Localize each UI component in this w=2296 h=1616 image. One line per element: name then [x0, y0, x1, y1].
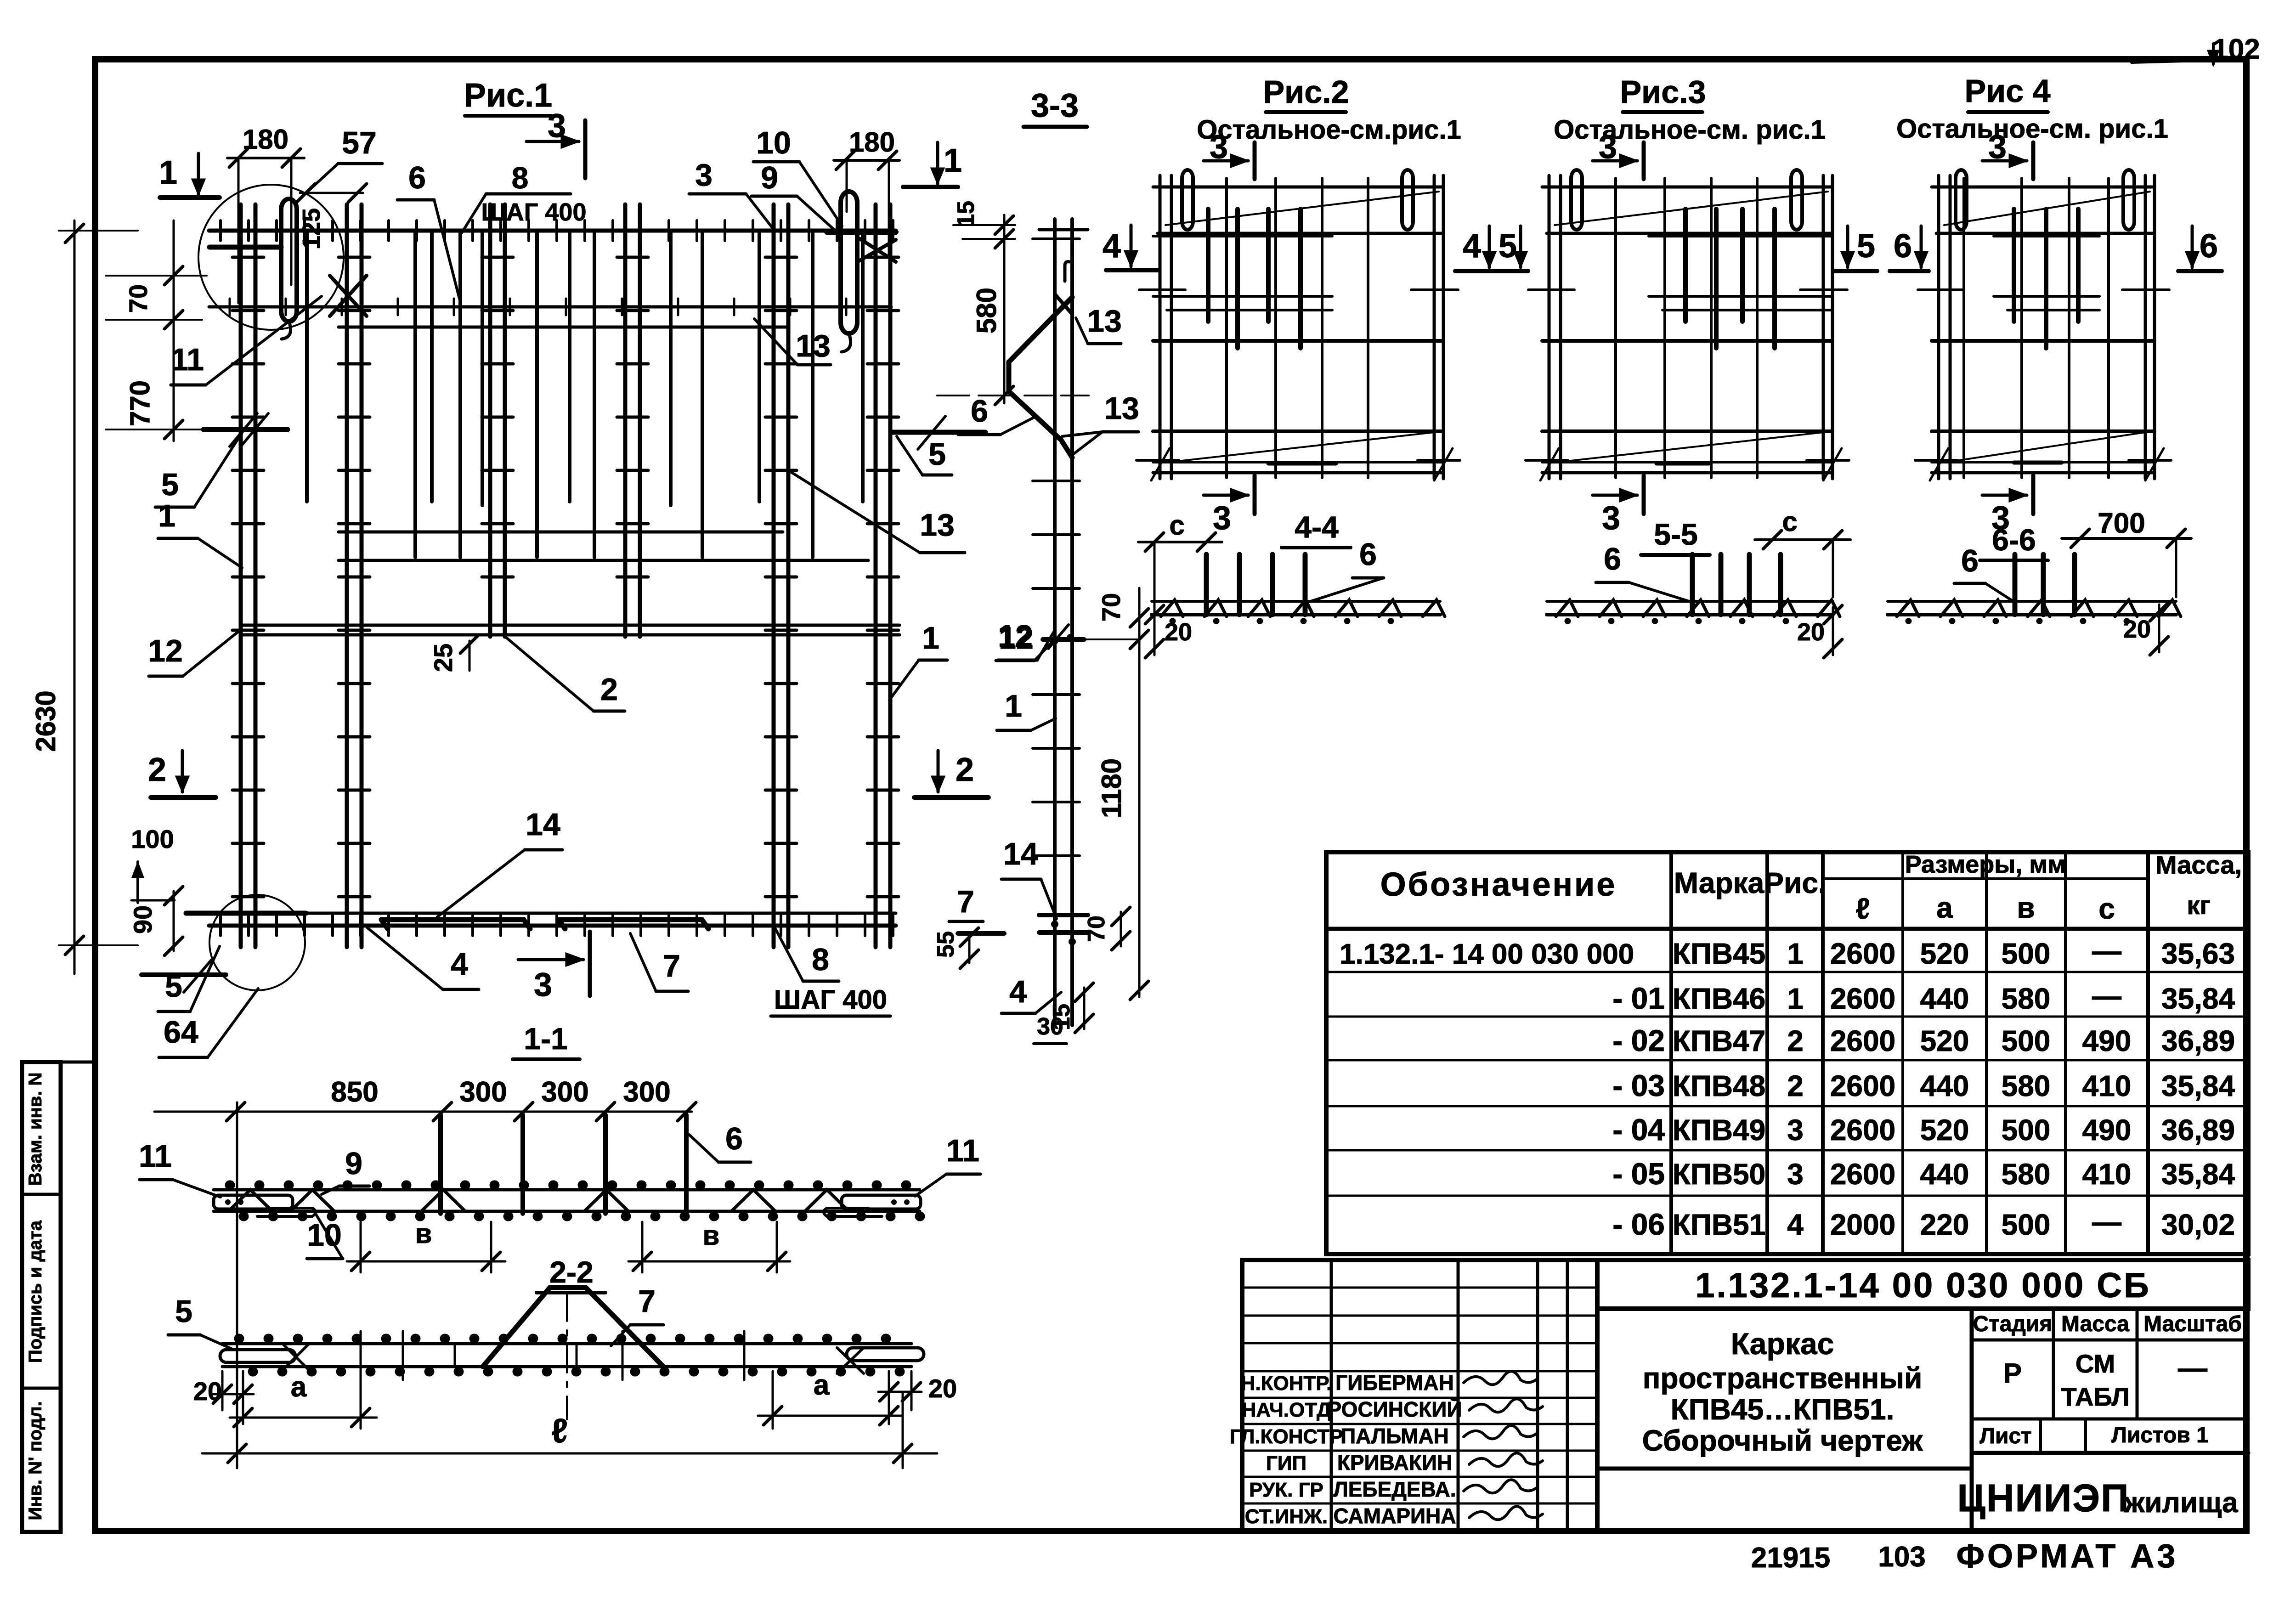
fig1 partial ladder D [623, 204, 628, 637]
svg-text:Рис.1: Рис.1 [464, 77, 552, 114]
fig1 horizontal bar 13 upper [339, 326, 786, 329]
section 2-2 right anchor oval [847, 1348, 924, 1361]
svg-text:2600: 2600 [1830, 937, 1895, 970]
svg-text:180: 180 [243, 124, 288, 155]
svg-text:700: 700 [2098, 508, 2145, 539]
title block list row [2039, 1419, 2042, 1453]
svg-text:10: 10 [756, 125, 791, 160]
svg-text:5: 5 [1857, 228, 1875, 265]
fig2 section marker 4 right [1488, 226, 1491, 267]
fig4 section marker 6 left [1920, 226, 1923, 267]
svg-text:Обозначение: Обозначение [1380, 866, 1617, 903]
svg-text:70: 70 [124, 284, 153, 313]
spec table header bottom line [1326, 927, 2248, 931]
svg-text:ТАБЛ: ТАБЛ [2061, 1382, 2129, 1411]
title block signature columns [1330, 1260, 1333, 1532]
svg-text:440: 440 [1920, 1069, 1969, 1102]
section 6-6 tie dots [1908, 618, 2127, 624]
fig1 bottom chord pair [209, 912, 896, 915]
svg-text:Рис.3: Рис.3 [1620, 74, 1706, 110]
section 2-2 left anchor oval 5 [220, 1350, 295, 1362]
fig4 bottom diagonal bar [1944, 432, 2145, 463]
svg-text:5: 5 [165, 969, 182, 1004]
section 2-2 centerline [566, 1294, 568, 1419]
svg-text:НАЧ.ОТД: НАЧ.ОТД [1242, 1399, 1331, 1421]
svg-text:КПВ48: КПВ48 [1673, 1069, 1765, 1102]
fig4 bottom ticks [1915, 459, 1957, 462]
svg-text:Н.КОНТР.: Н.КОНТР. [1241, 1372, 1332, 1395]
svg-text:500: 500 [2002, 937, 2051, 970]
svg-text:2: 2 [956, 751, 974, 788]
svg-text:100: 100 [131, 825, 174, 853]
section 1-1 left extension line [236, 1102, 238, 1468]
svg-text:ЦНИИЭП: ЦНИИЭП [1957, 1476, 2130, 1520]
svg-text:КПВ47: КПВ47 [1673, 1024, 1765, 1057]
section 5-5 main bar pair [1547, 600, 1833, 603]
section 4-4 wave ties [1161, 600, 1445, 616]
section 3-3 top tick [1039, 228, 1088, 232]
fig2 bottom chord dash [1268, 462, 1336, 466]
svg-text:кг: кг [2187, 891, 2210, 920]
section 2-2 bar dots [239, 1339, 900, 1372]
fig1 ladder column F [874, 204, 878, 947]
section 3-3 marker 4 top [1130, 225, 1133, 266]
svg-text:770: 770 [124, 380, 155, 426]
svg-text:Листов 1: Листов 1 [2111, 1423, 2209, 1447]
fig1 horizontal bar 13 lower [339, 531, 783, 534]
svg-text:Лист: Лист [1979, 1424, 2031, 1448]
svg-text:6: 6 [971, 394, 988, 429]
fig3 bottom diagonal bar [1555, 432, 1823, 463]
svg-text:1.132.1- 14 00 030 000: 1.132.1- 14 00 030 000 [1340, 938, 1634, 970]
svg-text:13: 13 [1104, 391, 1139, 426]
svg-text:- 04: - 04 [1612, 1113, 1665, 1147]
svg-text:13: 13 [1087, 304, 1122, 339]
svg-text:20: 20 [2123, 616, 2151, 643]
svg-text:в: в [415, 1218, 432, 1249]
svg-text:КРИВАКИН: КРИВАКИН [1337, 1451, 1452, 1475]
svg-text:ГИБЕРМАН: ГИБЕРМАН [1335, 1371, 1454, 1395]
fig1 lifting loop 9 left [281, 199, 297, 322]
svg-text:Масса,: Масса, [2155, 850, 2242, 879]
fig1 bottom left corner bar 5 [141, 972, 226, 977]
section 1-1 dim line 850 300 300 300 [154, 1111, 692, 1113]
svg-text:РОСИНСКИЙ: РОСИНСКИЙ [1328, 1397, 1462, 1421]
svg-text:Рис.2: Рис.2 [1263, 74, 1349, 110]
fig4 bottom chord pair [1932, 461, 2155, 463]
svg-text:Р: Р [2003, 1358, 2022, 1389]
svg-text:14: 14 [1003, 836, 1038, 871]
left filing strip connector [61, 1061, 95, 1064]
svg-text:5: 5 [1499, 228, 1517, 265]
svg-text:4: 4 [1009, 974, 1027, 1009]
title block right grid stadia massa masshtab [1970, 1309, 1974, 1532]
fig4 stud region rails [1994, 235, 2099, 237]
fig2 cage second chord [1158, 232, 1443, 235]
section 4-4 tie dots [1172, 618, 1391, 624]
svg-text:c: c [1782, 506, 1797, 537]
fig4 side stubs [1918, 288, 1964, 291]
svg-text:20: 20 [1797, 618, 1825, 646]
svg-text:КПВ49: КПВ49 [1673, 1113, 1765, 1147]
svg-text:4-4: 4-4 [1295, 510, 1339, 544]
svg-text:СМ: СМ [2075, 1349, 2115, 1378]
svg-text:35,84: 35,84 [2161, 1069, 2235, 1102]
fig3 right vertical pair [1822, 175, 1825, 479]
svg-text:21915: 21915 [1751, 1542, 1830, 1574]
svg-text:- 05: - 05 [1612, 1157, 1665, 1191]
svg-text:6: 6 [1961, 543, 1979, 578]
svg-text:- 01: - 01 [1612, 981, 1665, 1015]
svg-text:6: 6 [1894, 228, 1912, 265]
svg-text:a: a [1936, 891, 1953, 924]
svg-text:6: 6 [2200, 228, 2218, 265]
svg-text:20: 20 [1165, 618, 1192, 646]
spec table row lines [1326, 971, 2248, 973]
fig1 ladder column A [239, 204, 243, 947]
svg-text:2600: 2600 [1830, 1024, 1895, 1057]
svg-text:580: 580 [2002, 1069, 2051, 1102]
fig1 detail circle bottom left [209, 895, 305, 990]
svg-text:1: 1 [159, 154, 177, 191]
svg-text:102: 102 [2212, 34, 2260, 65]
svg-text:4: 4 [1787, 1208, 1804, 1241]
fig3 section marker 3 bottom [1593, 494, 1637, 497]
section 1-1 left anchor plate 11 [214, 1195, 293, 1209]
fig4 right vertical pair [2144, 175, 2147, 479]
svg-text:Масса: Масса [2061, 1312, 2129, 1336]
fig1 top left anchor detail 11 [209, 245, 281, 250]
fig4 mid chord [1932, 339, 2155, 343]
svg-text:3: 3 [695, 158, 713, 192]
svg-text:2000: 2000 [1830, 1208, 1895, 1241]
svg-text:440: 440 [1920, 982, 1969, 1015]
svg-text:8: 8 [512, 161, 529, 195]
fig1 ladder column E [772, 204, 776, 947]
fig3 mid chord [1542, 339, 1832, 343]
svg-text:3: 3 [548, 107, 566, 144]
section 6-6 stud bars 6 [2013, 554, 2018, 615]
section 3-3 centerline dash [988, 395, 1089, 396]
svg-text:125: 125 [298, 208, 325, 249]
svg-text:5-5: 5-5 [1654, 517, 1697, 551]
svg-text:7: 7 [638, 1284, 656, 1319]
title block big cell document number [1597, 1260, 2248, 1309]
svg-text:—: — [2092, 1205, 2121, 1238]
fig1 section marker 1 left [197, 153, 200, 195]
svg-text:2: 2 [148, 751, 166, 788]
left filing strip [22, 1062, 61, 1532]
svg-text:1-1: 1-1 [524, 1022, 567, 1056]
svg-text:9: 9 [761, 160, 778, 195]
svg-text:180: 180 [849, 127, 895, 158]
fig3 section marker 5 right [1846, 226, 1849, 267]
svg-text:70: 70 [1083, 915, 1110, 942]
fig1 top right anchor detail [827, 229, 896, 235]
fig3 section marker 3 top [1593, 159, 1637, 163]
svg-text:ГЛ.КОНСТР: ГЛ.КОНСТР [1230, 1425, 1343, 1448]
svg-text:3: 3 [1210, 129, 1228, 165]
svg-text:- 06: - 06 [1612, 1207, 1665, 1241]
svg-text:440: 440 [1920, 1158, 1969, 1191]
svg-text:13: 13 [920, 508, 955, 542]
fig1 section marker 1 right [936, 142, 939, 184]
fig2 left vertical pair [1159, 175, 1162, 479]
fig1 short vertical bars top area [305, 231, 309, 502]
section 4-4 main bar pair [1152, 600, 1440, 603]
fig2 side stubs [1139, 288, 1185, 291]
svg-text:Остальное-см. рис.1: Остальное-см. рис.1 [1554, 115, 1826, 145]
svg-text:20: 20 [928, 1374, 957, 1403]
svg-text:14: 14 [526, 807, 560, 842]
svg-text:КПВ45…КПВ51.: КПВ45…КПВ51. [1671, 1393, 1894, 1426]
fig1 second chord bar [209, 305, 891, 309]
svg-text:ГИП: ГИП [1266, 1452, 1306, 1475]
section 3-3 bottom anchor marks [1039, 913, 1088, 917]
section 2-2 main bar pair [222, 1342, 911, 1345]
svg-text:ФОРМАТ А3: ФОРМАТ А3 [1957, 1538, 2178, 1575]
fig3 stud region rails [1649, 235, 1832, 237]
svg-text:2: 2 [1787, 1069, 1804, 1102]
fig2 inner vertical bars [1225, 178, 1228, 478]
fig3 bottom band top chord [1542, 429, 1832, 433]
title block signature squiggles [1464, 1371, 1543, 1520]
fig4 bottom band top chord [1932, 429, 2155, 433]
svg-text:490: 490 [2082, 1113, 2132, 1147]
section 1-1 main bar pair [214, 1188, 920, 1192]
section 6-6 wave ties [1897, 600, 2181, 616]
fig2 bottom band top chord [1153, 429, 1443, 433]
fig3 stud bars 6 [1683, 209, 1688, 322]
svg-text:55: 55 [933, 931, 959, 958]
svg-text:5: 5 [928, 437, 946, 472]
svg-text:a: a [814, 1369, 830, 1401]
fig4 bottom chord dash [2014, 461, 2062, 465]
svg-text:410: 410 [2082, 1158, 2132, 1191]
section 1-1 bar dots [230, 1185, 920, 1216]
section 3-3 small hook [1065, 262, 1069, 281]
svg-text:103: 103 [1878, 1541, 1925, 1573]
fig3 cage top chord [1542, 186, 1832, 189]
spec table outer border [1326, 852, 2248, 1254]
svg-text:Взам. инв. N: Взам. инв. N [25, 1073, 45, 1186]
svg-text:500: 500 [2002, 1208, 2051, 1241]
svg-text:520: 520 [1920, 1113, 1969, 1147]
fig4 inner vertical bars [1962, 178, 1965, 478]
svg-text:8: 8 [812, 942, 829, 977]
svg-text:6: 6 [408, 160, 426, 195]
fig3 left vertical pair [1548, 175, 1551, 479]
svg-text:7: 7 [663, 949, 680, 983]
fig1 right stub bar 5 [893, 430, 985, 435]
svg-text:—: — [2092, 979, 2121, 1012]
fig1 top chord bar 3 [209, 229, 896, 233]
fig4 section marker 3 bottom [1982, 494, 2027, 497]
svg-text:64: 64 [164, 1015, 198, 1050]
fig2 bottom ticks [1137, 459, 1179, 462]
svg-text:6: 6 [1359, 537, 1377, 572]
svg-text:Остальное-см.рис.1: Остальное-см.рис.1 [1197, 115, 1461, 145]
fig1 top chord tick marks [221, 220, 893, 241]
svg-text:6: 6 [1604, 542, 1621, 576]
svg-text:25: 25 [429, 644, 458, 672]
fig2 stud region rails [1153, 235, 1332, 237]
section 1-1 stud bars 6 [438, 1115, 443, 1214]
svg-text:300: 300 [623, 1076, 670, 1108]
section 3-3 bent bar 6 diamond [1009, 297, 1072, 458]
section 2-2 cross ticks [360, 1331, 362, 1380]
svg-text:Масштаб: Масштаб [2143, 1312, 2242, 1336]
svg-text:90: 90 [128, 905, 157, 934]
fig4 top diagonal bar [1944, 192, 2150, 225]
fig1 horizontal bar mid [339, 559, 868, 562]
fig4 cage second chord [1936, 232, 2155, 235]
svg-text:ШАГ 400: ШАГ 400 [774, 985, 887, 1015]
svg-text:Стадия: Стадия [1973, 1312, 2053, 1336]
svg-text:пространственный: пространственный [1643, 1362, 1923, 1395]
svg-text:520: 520 [1920, 1024, 1969, 1057]
section 1-1 tie triangles [228, 1190, 272, 1211]
svg-text:КПВ46: КПВ46 [1673, 982, 1765, 1015]
fig4 left vertical pair [1937, 175, 1940, 479]
svg-text:САМАРИНА: САМАРИНА [1333, 1504, 1456, 1528]
svg-text:Остальное-см. рис.1: Остальное-см. рис.1 [1896, 114, 2168, 144]
svg-text:30,02: 30,02 [2161, 1208, 2235, 1241]
title block signature table outer [1242, 1260, 1597, 1532]
svg-text:3-3: 3-3 [1031, 87, 1079, 124]
fig3 top diagonal bar [1555, 192, 1828, 225]
svg-text:3: 3 [1988, 129, 2007, 165]
title block name cell border [1597, 1309, 1972, 1469]
section 2-2 bent bar 7 trapezoid [483, 1288, 663, 1367]
svg-text:4: 4 [1103, 228, 1121, 265]
svg-text:1: 1 [1787, 982, 1804, 1015]
svg-text:30: 30 [1037, 1013, 1063, 1040]
section 6-6 main bar pair [1888, 600, 2176, 603]
svg-text:12: 12 [148, 633, 183, 668]
svg-text:490: 490 [2082, 1024, 2132, 1057]
svg-text:Инв. N' подл.: Инв. N' подл. [25, 1401, 45, 1520]
fig1 left stub bar 5 [204, 427, 288, 432]
svg-text:9: 9 [345, 1146, 362, 1181]
fig3 section marker 5 left [1519, 226, 1522, 267]
svg-text:КПВ50: КПВ50 [1673, 1158, 1765, 1191]
svg-text:—: — [2178, 1351, 2207, 1384]
fig2 stud bars 6 [1206, 209, 1210, 322]
fig3 cage second chord [1547, 232, 1832, 235]
svg-text:3: 3 [1602, 500, 1620, 537]
svg-text:300: 300 [541, 1076, 588, 1108]
svg-text:3: 3 [534, 966, 552, 1003]
fig2 bottom diagonal bar [1165, 432, 1434, 463]
svg-text:36,89: 36,89 [2161, 1113, 2235, 1147]
svg-text:ПАЛЬМАН: ПАЛЬМАН [1340, 1424, 1449, 1448]
fig3 side stubs [1528, 288, 1574, 291]
svg-text:1180: 1180 [1096, 758, 1127, 818]
svg-text:3: 3 [1787, 1113, 1804, 1147]
fig4 section marker 6 right [2191, 226, 2194, 267]
fig2 section marker 3 top [1204, 159, 1248, 163]
fig3 inner vertical bars [1614, 178, 1617, 478]
svg-text:20: 20 [193, 1377, 222, 1406]
fig2 cage top chord [1153, 186, 1443, 189]
fig3 lifting loops [1571, 170, 1582, 230]
svg-text:1: 1 [158, 498, 175, 533]
fig1 partial ladder C [488, 204, 492, 637]
svg-text:2600: 2600 [1830, 1069, 1895, 1102]
svg-text:5: 5 [161, 467, 179, 502]
svg-text:- 02: - 02 [1612, 1023, 1665, 1057]
fig1 lifting loop 9 right [841, 192, 857, 333]
svg-text:2600: 2600 [1830, 1158, 1895, 1191]
svg-text:ℓ: ℓ [551, 1412, 568, 1450]
section 4-4 stud bars 6 [1204, 554, 1209, 615]
svg-text:a: a [291, 1371, 307, 1403]
spec table razmery subdivider [1823, 877, 2148, 880]
svg-text:410: 410 [2082, 1069, 2132, 1102]
svg-text:в: в [2017, 891, 2035, 924]
fig4 lifting loops [1956, 170, 1967, 230]
svg-text:1: 1 [944, 142, 962, 179]
svg-text:1: 1 [922, 621, 939, 655]
svg-text:КПВ51: КПВ51 [1673, 1208, 1765, 1241]
svg-text:4: 4 [1463, 228, 1481, 265]
svg-text:580: 580 [2002, 982, 2051, 1015]
title block signature rows [1242, 1287, 1597, 1289]
svg-text:6: 6 [725, 1121, 743, 1156]
svg-text:500: 500 [2002, 1024, 2051, 1057]
fig4 cage top chord [1932, 186, 2155, 189]
svg-text:Рис.: Рис. [1764, 866, 1826, 899]
svg-text:36,89: 36,89 [2161, 1024, 2235, 1057]
section 5-5 wave ties [1556, 600, 1840, 616]
section 3-3 bar 12 stub [1043, 637, 1084, 642]
svg-text:—: — [2092, 934, 2121, 967]
svg-text:c: c [2098, 892, 2115, 925]
fig3 bottom chord dash [1657, 462, 1709, 466]
svg-text:11: 11 [139, 1139, 172, 1174]
svg-text:ℓ: ℓ [1855, 892, 1870, 925]
svg-text:11: 11 [171, 342, 204, 377]
svg-text:3: 3 [1599, 129, 1617, 165]
fig2 section marker 3 bottom [1204, 494, 1248, 497]
svg-text:Сборочный чертеж: Сборочный чертеж [1642, 1424, 1923, 1457]
svg-text:520: 520 [1920, 937, 1969, 970]
svg-text:6-6: 6-6 [1992, 523, 2036, 557]
svg-text:2-2: 2-2 [549, 1255, 593, 1289]
fig2 bottom chord pair [1153, 461, 1443, 463]
svg-text:3: 3 [1213, 500, 1231, 537]
fig1 horizontal bar pair 12 [241, 624, 899, 627]
fig1 bent bar 7 bottom right segment [559, 920, 708, 929]
svg-text:Размеры, мм: Размеры, мм [1905, 851, 2066, 878]
svg-text:35,84: 35,84 [2161, 1158, 2235, 1191]
fig1 section marker 3 bottom [518, 958, 583, 961]
svg-text:ЛЕБЕДЕВА.: ЛЕБЕДЕВА. [1333, 1477, 1456, 1501]
fig2 mid chord [1153, 339, 1443, 343]
svg-text:2630: 2630 [30, 690, 61, 751]
fig1 section marker 2 left [181, 751, 184, 792]
fig1 detail circle top left [198, 185, 344, 330]
svg-text:1: 1 [1787, 937, 1804, 970]
svg-text:5: 5 [175, 1294, 192, 1329]
svg-text:11: 11 [946, 1133, 979, 1168]
svg-text:РУК. ГР: РУК. ГР [1249, 1479, 1323, 1501]
svg-text:7: 7 [957, 884, 974, 919]
svg-text:35,63: 35,63 [2161, 937, 2235, 970]
svg-text:580: 580 [971, 288, 1002, 333]
svg-text:КПВ45: КПВ45 [1673, 937, 1765, 970]
